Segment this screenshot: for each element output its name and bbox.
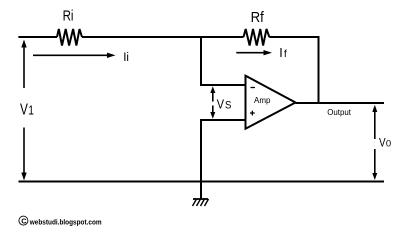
svg-text:V: V xyxy=(379,137,386,149)
svg-text:C: C xyxy=(21,217,27,226)
arrow V0 down xyxy=(372,149,377,180)
label Output xyxy=(327,108,352,117)
wire output horizontal xyxy=(296,102,385,104)
label Ri xyxy=(63,7,74,24)
svg-text:V: V xyxy=(20,102,28,119)
svg-text:Rf: Rf xyxy=(251,9,265,26)
svg-text:1: 1 xyxy=(28,103,34,118)
svg-text:0: 0 xyxy=(386,138,391,148)
resistor Ri xyxy=(57,29,82,46)
op-amp label Amp xyxy=(254,96,271,105)
arrow V1 down xyxy=(21,128,26,181)
wire top rail middle segment xyxy=(82,36,244,38)
svg-text:I: I xyxy=(279,46,282,60)
label V1 xyxy=(20,102,34,119)
watermark copyright symbol xyxy=(19,216,28,225)
label Rf xyxy=(251,9,265,26)
svg-text:Amp: Amp xyxy=(254,96,271,105)
wire inverting input horizontal xyxy=(200,84,246,86)
op-amp U1 triangle xyxy=(246,76,296,129)
wire top rail left segment xyxy=(18,36,57,38)
op-amp non-inverting pin plus sign xyxy=(250,111,255,116)
svg-text:V: V xyxy=(217,96,225,111)
wire feedback right vertical xyxy=(318,36,320,103)
ground xyxy=(193,199,209,206)
wire non-inverting input horizontal xyxy=(200,119,246,121)
watermark text webstudi.blogspot.com xyxy=(29,217,102,226)
label If xyxy=(279,46,287,60)
op-amp inverting pin minus sign xyxy=(251,87,256,89)
resistor Rf xyxy=(244,29,270,46)
wire bottom rail xyxy=(19,181,385,183)
arrow VS down xyxy=(210,106,215,119)
arrow V0 up xyxy=(372,105,377,139)
svg-text:S: S xyxy=(225,99,231,111)
svg-text:Ii: Ii xyxy=(123,52,129,64)
wire top rail right segment xyxy=(269,36,318,38)
arrow VS up xyxy=(210,86,215,101)
svg-text:Ri: Ri xyxy=(63,7,74,24)
label V0 xyxy=(379,137,391,149)
svg-text:Output: Output xyxy=(327,108,352,117)
wire node vertical lower (non-inverting input to ground) xyxy=(200,120,202,199)
svg-text:webstudi.blogspot.com: webstudi.blogspot.com xyxy=(29,217,102,226)
arrow If xyxy=(236,50,272,55)
wire node vertical upper (junction to inverting input) xyxy=(200,36,202,85)
label Ii xyxy=(123,52,129,64)
label VS xyxy=(217,96,232,111)
arrow Ii xyxy=(33,53,116,58)
arrow V1 up xyxy=(21,40,26,89)
svg-text:f: f xyxy=(284,48,287,60)
